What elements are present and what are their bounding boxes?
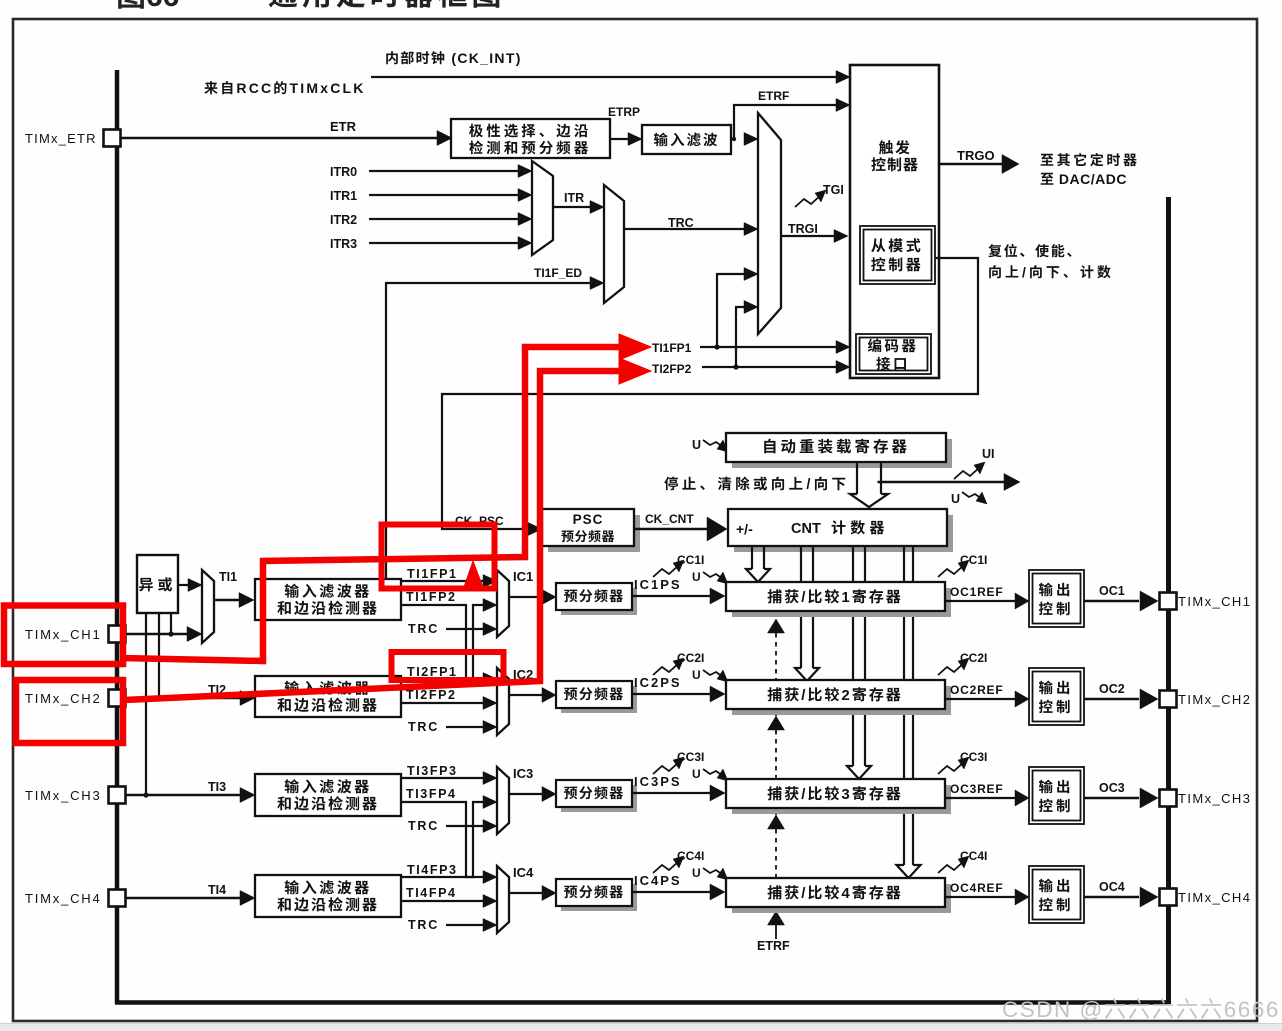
arrow into register3 bottom: [768, 815, 785, 829]
svg-text:U: U: [692, 866, 701, 880]
svg-text:OC3: OC3: [1099, 781, 1125, 795]
svg-text:OC3REF: OC3REF: [950, 782, 1003, 796]
label 至 DAC/ADC: [1041, 173, 1054, 185]
bottom scrollbar strip: [0, 1024, 1282, 1031]
svg-text:TI1FP1: TI1FP1: [652, 341, 692, 355]
box 预分频器 channel 4 prescaler: [561, 884, 637, 911]
wire IC1PS: [632, 595, 711, 597]
svg-text:IC1: IC1: [513, 569, 533, 584]
pin TIMx_CH4 (left): [109, 890, 126, 907]
svg-text:OC2REF: OC2REF: [950, 683, 1003, 697]
event CC2I squiggle (right): [938, 663, 964, 675]
wire IC3 to prescaler: [509, 793, 542, 795]
label 复位、使能、: [988, 244, 1001, 257]
wire ITR1: [369, 194, 519, 196]
svg-text:U: U: [692, 438, 701, 452]
red arrow at TI1FP1 channel-1 label: [463, 561, 484, 590]
label 内部时钟 (CK_INT): [386, 51, 398, 64]
box 输入滤波器和边沿检测器 channel 4: [255, 875, 401, 917]
svg-text:2: 2: [841, 687, 851, 704]
wire OC3REF: [945, 797, 1015, 799]
svg-text:U: U: [692, 767, 701, 781]
wire TRGI: [781, 235, 835, 237]
svg-text:RCC: RCC: [236, 80, 273, 96]
red highlight rectangle around TI1FP1 label: [382, 525, 495, 589]
svg-text:/: /: [1022, 264, 1029, 280]
XOR input legs from CH1-CH3: [170, 613, 172, 634]
svg-text:TRC: TRC: [408, 819, 439, 833]
bus CNT to capture/compare register 1: [751, 547, 753, 569]
mux IC2 select: [497, 668, 509, 735]
svg-text:OC1: OC1: [1099, 584, 1125, 598]
wire OC1REF: [945, 600, 1015, 602]
label 停止、清除或向上/向下: [664, 477, 678, 491]
svg-text:ITR3: ITR3: [330, 237, 357, 251]
arrow into register2 bottom: [768, 716, 785, 730]
svg-text:TIMxCLK: TIMxCLK: [290, 80, 366, 96]
wire TI1FP1 to encoder interface: [700, 346, 838, 348]
wire IC3PS: [632, 792, 711, 794]
box 捕获/比较4寄存器 capture/compare register 4: [732, 884, 951, 913]
pin TIMx_CH1 (left): [109, 626, 126, 643]
box 输入滤波器和边沿检测器 channel 3: [255, 774, 401, 816]
event CC2I squiggle (left): [653, 663, 679, 675]
red highlight rectangle around TIMx_CH1: [4, 606, 123, 665]
svg-text:(CK_INT): (CK_INT): [446, 50, 521, 66]
svg-text:PSC: PSC: [573, 512, 604, 527]
wire TRC channel 2: [446, 726, 484, 728]
wire TI2FP2 to encoder interface: [702, 366, 838, 368]
wire OC3: [1084, 797, 1139, 800]
svg-text:IC4: IC4: [513, 865, 534, 880]
wire TRC channel 3: [446, 825, 484, 827]
event UI squiggle: [954, 467, 980, 479]
box 输入滤波器和边沿检测器 channel 1: [255, 579, 401, 620]
title 图66 通用定时器框图 (clipped): [118, 0, 144, 9]
wire ETR: [121, 137, 438, 140]
svg-text:DAC/ADC: DAC/ADC: [1055, 171, 1127, 187]
box PSC 预分频器 prescaler: [548, 515, 640, 552]
red highlight rectangle around TI2FP1 label: [392, 652, 504, 680]
svg-text:TIMx_CH2: TIMx_CH2: [25, 691, 102, 706]
svg-text:ETR: ETR: [330, 119, 357, 134]
wire ETRF to trigger controller: [731, 105, 838, 139]
left pin bus: [115, 70, 120, 1004]
mux IC1 select: [497, 570, 509, 637]
wire TI1F_ED: [386, 283, 591, 579]
pin TIMx_CH1 (right): [1160, 593, 1177, 610]
pin TIMx_CH2 (right): [1160, 691, 1177, 708]
svg-text:TIMx_CH1: TIMx_CH1: [1178, 594, 1251, 609]
svg-text:6666: 6666: [1224, 997, 1280, 1022]
wire TRC channel 4: [446, 924, 484, 926]
dashed capture trigger line: [775, 633, 777, 716]
svg-text:TIMx_CH3: TIMx_CH3: [25, 788, 102, 803]
wire TIMx_CH1 to TI1 mux: [126, 633, 189, 635]
label 至其它定时器: [1041, 154, 1054, 166]
box 异或 XOR: [137, 555, 178, 613]
box 自动重装载寄存器 auto-reload register: [732, 439, 952, 468]
event CC1I squiggle (right): [938, 565, 964, 577]
svg-text:ITR2: ITR2: [330, 213, 357, 227]
wire ITR0: [369, 170, 519, 172]
wire ETRP: [610, 138, 629, 140]
wire OC2: [1084, 698, 1139, 701]
svg-text:CNT: CNT: [791, 521, 821, 537]
wire TI1FP1: [401, 580, 484, 582]
svg-text:TIMx_CH4: TIMx_CH4: [1178, 890, 1251, 905]
wire CK_INT: [371, 76, 838, 78]
wire CK_CNT: [634, 528, 707, 530]
wire TI3: [126, 794, 241, 796]
wire IC2PS: [632, 693, 711, 695]
svg-text:TIMx_CH2: TIMx_CH2: [1178, 692, 1251, 707]
box 触发控制器 trigger controller: [850, 65, 939, 378]
wire XOR output to TI1 mux: [178, 584, 189, 586]
svg-text:TI1F_ED: TI1F_ED: [534, 266, 582, 280]
wire slave mode controller feedback to PSC: [442, 258, 978, 529]
svg-text:TIMx_ETR: TIMx_ETR: [25, 131, 97, 146]
svg-text:TRC: TRC: [408, 720, 439, 734]
wire TI4FP3 cross to IC3 mux: [401, 802, 484, 877]
box 捕获/比较3寄存器 capture/compare register 3: [732, 785, 951, 814]
svg-text:TRC: TRC: [408, 918, 439, 932]
bottom bus wire: [115, 1000, 1169, 1005]
box 输出控制 channel 4: [1029, 866, 1084, 923]
box 输入滤波器和边沿检测器 channel 2: [255, 676, 401, 717]
box 输入滤波: [642, 125, 731, 154]
box 输出控制 channel 2: [1029, 668, 1084, 725]
pin TIMx_CH3 (right): [1160, 790, 1177, 807]
mux IC4 select: [497, 866, 509, 933]
wire OC2REF: [945, 698, 1015, 700]
wire TI1FP1 riser to trigger mux: [717, 274, 746, 347]
svg-text:ETRP: ETRP: [608, 105, 640, 119]
svg-text:TIMx_CH4: TIMx_CH4: [25, 891, 102, 906]
arrow into register1 bottom: [768, 619, 785, 633]
label 来自RCC的TIMxCLK: [204, 81, 217, 94]
event CC4I squiggle (right): [938, 861, 964, 873]
wire TI4FP4: [401, 900, 484, 902]
arrow into register4 bottom: [768, 911, 785, 925]
wire TI2: [126, 697, 241, 699]
svg-text:/: /: [801, 687, 807, 704]
svg-text:IC3PS: IC3PS: [634, 774, 682, 789]
wire TRGO: [939, 163, 1002, 166]
svg-text:TIMx_CH1: TIMx_CH1: [25, 627, 102, 642]
svg-text:CK_CNT: CK_CNT: [645, 512, 694, 526]
event CC4I squiggle (left): [653, 861, 679, 873]
svg-text:TI2FP2: TI2FP2: [652, 362, 692, 376]
svg-text:U: U: [951, 492, 960, 506]
svg-text:/: /: [801, 786, 807, 803]
svg-text:TI1FP1: TI1FP1: [407, 567, 458, 581]
svg-text:ITR0: ITR0: [330, 165, 357, 179]
svg-text:TRGI: TRGI: [788, 222, 818, 236]
svg-text:+/-: +/-: [736, 521, 753, 537]
svg-text:TI4FP3: TI4FP3: [407, 863, 458, 877]
bus CNT to capture/compare register 4: [903, 547, 905, 865]
red path TIMx_CH2 to TI2FP2 (encoder): [124, 371, 622, 700]
svg-text:TI2FP1: TI2FP1: [407, 665, 458, 679]
bus auto-reload to counter (hollow arrow): [856, 462, 858, 494]
svg-text:OC4REF: OC4REF: [950, 881, 1003, 895]
wire OC4: [1084, 896, 1139, 899]
wire ITR2: [369, 218, 519, 220]
pin TIMx_CH2 (left): [109, 690, 126, 707]
box 从模式控制器 slave mode controller: [860, 226, 935, 284]
svg-text:TI2FP2: TI2FP2: [406, 688, 457, 702]
svg-text:OC1REF: OC1REF: [950, 585, 1003, 599]
wire UI update event: [878, 481, 1005, 483]
wire IC4PS: [632, 891, 711, 893]
wire OC4REF: [945, 896, 1015, 898]
svg-text:ITR1: ITR1: [330, 189, 357, 203]
svg-text:TI1FP2: TI1FP2: [406, 590, 457, 604]
svg-text:/: /: [801, 885, 807, 902]
wire TI1: [214, 599, 240, 601]
svg-text:UI: UI: [982, 447, 995, 461]
svg-text:/: /: [806, 477, 813, 493]
bus CNT to capture/compare register 2: [800, 547, 802, 668]
wire IC4 to prescaler: [509, 892, 542, 894]
svg-text:TGI: TGI: [823, 183, 844, 197]
svg-text:TI3FP4: TI3FP4: [406, 787, 457, 801]
svg-text:TI3: TI3: [208, 780, 226, 794]
wire OC1: [1084, 600, 1139, 603]
svg-text:1: 1: [841, 589, 851, 606]
svg-text:66: 66: [146, 0, 179, 13]
wire TRC: [624, 228, 744, 230]
label 向上/向下、计数: [989, 265, 1001, 278]
box 极性选择、边沿检测和预分频器: [451, 119, 610, 158]
svg-text:TI4FP4: TI4FP4: [406, 886, 457, 900]
svg-text:ETRF: ETRF: [758, 89, 789, 103]
svg-text:IC3: IC3: [513, 766, 533, 781]
event CC1I squiggle (left): [653, 565, 679, 577]
svg-text:IC2PS: IC2PS: [634, 675, 682, 690]
wire TI1FP2 cross to IC2 mux: [401, 605, 484, 679]
box CNT 计数器 counter: [734, 515, 953, 552]
mux IC3 select: [497, 767, 509, 834]
pin TIMx_CH3 (left): [109, 787, 126, 804]
box 捕获/比较2寄存器 capture/compare register 2: [732, 686, 951, 715]
box 预分频器 channel 1 prescaler: [561, 588, 637, 615]
wire IC1 to prescaler: [509, 596, 542, 598]
svg-text:U: U: [692, 668, 701, 682]
svg-text:U: U: [692, 570, 701, 584]
event CC3I squiggle (right): [938, 762, 964, 774]
red path TIMx_CH1 to TI1FP1 (encoder): [121, 347, 622, 661]
event TGI squiggle arrow: [795, 195, 821, 207]
box 预分频器 channel 3 prescaler: [561, 785, 637, 812]
wire TI3FP3: [401, 777, 484, 779]
wire TI4: [126, 897, 241, 899]
svg-text:3: 3: [841, 786, 851, 803]
svg-text:TI1: TI1: [219, 570, 237, 584]
svg-text:TI3FP3: TI3FP3: [407, 764, 458, 778]
mux TI1 select: [202, 570, 214, 643]
svg-text:TRC: TRC: [408, 622, 439, 636]
svg-text:CSDN @: CSDN @: [1002, 997, 1104, 1022]
box 捕获/比较1寄存器 capture/compare register 1: [732, 588, 951, 617]
svg-text:IC4PS: IC4PS: [634, 873, 682, 888]
box 输出控制 channel 1: [1029, 570, 1084, 627]
svg-text:OC4: OC4: [1099, 880, 1125, 894]
wire IC2 to prescaler: [509, 694, 542, 696]
mux trigger input select: [758, 113, 781, 334]
wire TI3FP4 cross to IC4 mux: [401, 802, 484, 877]
svg-text:TRGO: TRGO: [957, 148, 995, 163]
pin TIMx_CH4 (right): [1160, 889, 1177, 906]
svg-text:ETRF: ETRF: [757, 939, 790, 953]
wire TI2FP2 riser to trigger mux: [736, 307, 746, 367]
wire ITR: [553, 206, 591, 208]
box 编码器接口 encoder interface: [856, 334, 931, 374]
svg-text:IC1PS: IC1PS: [634, 577, 682, 592]
box 输出控制 channel 3: [1029, 767, 1084, 824]
bus CNT to capture/compare register 3: [852, 547, 854, 766]
svg-text:OC2: OC2: [1099, 682, 1125, 696]
wire TRC channel 1: [446, 628, 484, 630]
box 预分频器 channel 2 prescaler: [561, 686, 637, 713]
svg-text:TI4: TI4: [208, 883, 226, 897]
svg-text:TRC: TRC: [668, 216, 694, 230]
mux TRC select: [604, 185, 624, 303]
wire TI2FP2: [401, 702, 484, 704]
red highlight rectangle around TIMx_CH2: [16, 680, 123, 743]
mux ITR select: [532, 161, 553, 255]
svg-text:4: 4: [841, 885, 851, 902]
wire ITR3: [369, 242, 519, 244]
pin TIMx_ETR: [104, 130, 121, 147]
wire TI2FP1 cross to IC1 mux: [401, 605, 484, 679]
svg-text:/: /: [801, 589, 807, 606]
event CC3I squiggle (left): [653, 762, 679, 774]
svg-text:ITR: ITR: [564, 191, 584, 205]
svg-text:TIMx_CH3: TIMx_CH3: [1178, 791, 1251, 806]
right pin bus: [1166, 197, 1171, 1004]
